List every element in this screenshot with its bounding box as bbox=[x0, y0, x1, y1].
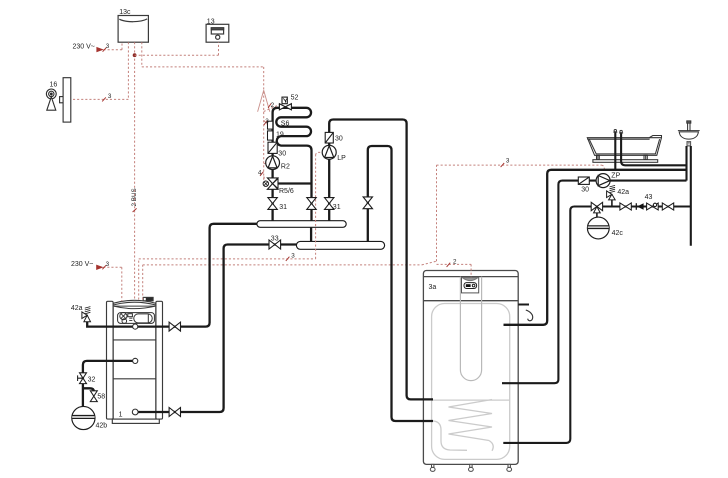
pipe: bathtub hot feed bbox=[614, 132, 616, 170]
tank control panel bbox=[462, 277, 479, 293]
svg-text:13c: 13c bbox=[119, 9, 131, 16]
svg-text:3: 3 bbox=[106, 261, 110, 268]
tank sensor squiggle bbox=[526, 310, 533, 321]
valve 33 bbox=[269, 240, 281, 249]
tank dip tube (gray) bbox=[460, 277, 481, 381]
sensor 19 bbox=[268, 131, 273, 140]
svg-text:2: 2 bbox=[271, 102, 275, 109]
svg-text:3: 3 bbox=[291, 252, 295, 259]
pipe: cold water feed to tank bbox=[503, 207, 691, 443]
pipe: heat pump flow to upper header bbox=[87, 224, 257, 327]
wire 230V supply to 13c (top) bbox=[104, 42, 123, 50]
wire 13c to receiver 16 bbox=[71, 42, 128, 99]
svg-text:3: 3 bbox=[108, 93, 112, 100]
svg-text:230 V~: 230 V~ bbox=[73, 44, 95, 51]
DHW tank 3a body bbox=[423, 271, 518, 465]
pipe: bridge between headers bbox=[310, 227, 312, 241]
radio clock receiver 16 bbox=[46, 78, 70, 122]
svg-text:43: 43 bbox=[645, 194, 653, 201]
svg-text:R5/6: R5/6 bbox=[279, 188, 294, 195]
sensor pocket (plain) bbox=[268, 121, 273, 129]
shutoff valve (cold line 1) bbox=[620, 203, 631, 210]
pipe: hot riser at basin bbox=[685, 146, 687, 181]
shutoff valve (tank coil return) bbox=[363, 197, 372, 209]
control unit 13c bbox=[118, 16, 148, 43]
arrowhead on mixing circuit cable bbox=[258, 90, 270, 112]
pipe: bathtub cold feed bbox=[621, 133, 686, 165]
mixing valve R5/6 bbox=[267, 178, 278, 189]
shutoff valve 31 (mixing circuit) bbox=[268, 198, 277, 210]
wire 13c BUS to heat pump bbox=[134, 42, 136, 300]
wire branch to sensors 19 bbox=[264, 120, 268, 124]
svg-text:1: 1 bbox=[119, 411, 123, 418]
wire branch to valve 52 motor bbox=[264, 104, 281, 111]
wire 230V supply to heat pump (lower) bbox=[103, 267, 122, 301]
svg-text:52: 52 bbox=[291, 94, 299, 101]
safety valve 42a (cold line) bbox=[607, 185, 616, 206]
svg-text:3: 3 bbox=[265, 118, 269, 125]
wire heat pump to tank sensor and pump ZP bbox=[143, 165, 605, 300]
pipe: cold water riser bbox=[690, 146, 692, 246]
pipe: mixer R5/6 bypass bbox=[278, 182, 312, 184]
arrow 230V lower bbox=[96, 265, 103, 270]
heat pump control panel bbox=[118, 313, 155, 324]
svg-text:58: 58 bbox=[97, 394, 105, 401]
pipe: tank coil return to lower header bbox=[368, 146, 433, 421]
pump R2 bbox=[266, 156, 280, 170]
heat pump return shutoff valve bbox=[169, 408, 180, 417]
safety valve 42a (heat pump) bbox=[82, 307, 91, 322]
tank sensor-well stub bbox=[518, 304, 529, 306]
svg-text:30: 30 bbox=[581, 187, 589, 194]
bathtub tap fittings bbox=[613, 130, 623, 134]
svg-text:2 BUS: 2 BUS bbox=[131, 188, 138, 206]
svg-text:ZP: ZP bbox=[611, 172, 620, 179]
wire to tank control 2 bbox=[437, 264, 472, 277]
pipe: heat pump to expansion vessel 42b bbox=[83, 361, 135, 407]
svg-text:4: 4 bbox=[258, 169, 262, 176]
labels (black) bbox=[50, 9, 653, 429]
heat pump cabinet bbox=[107, 297, 163, 423]
svg-text:S6: S6 bbox=[281, 121, 290, 128]
shutoff valve 31 (LP line) bbox=[325, 198, 334, 210]
shutoff valve (serpentine return) bbox=[307, 198, 316, 210]
pipe: heating circuit serpentine S6 bbox=[273, 108, 312, 221]
washbasin bbox=[678, 121, 700, 146]
svg-text:3: 3 bbox=[506, 158, 510, 165]
svg-text:31: 31 bbox=[333, 204, 341, 211]
expansion vessel 42c bbox=[587, 217, 609, 239]
tank inner vessel (gray) bbox=[432, 304, 510, 460]
check valve (cold line) bbox=[636, 203, 643, 210]
pump LP bbox=[322, 145, 336, 159]
lower header bbox=[296, 241, 384, 249]
svg-text:13: 13 bbox=[207, 19, 215, 26]
svg-text:230 V~: 230 V~ bbox=[71, 261, 93, 268]
three-way valve with expansion vessel branch bbox=[591, 202, 602, 217]
svg-text:32: 32 bbox=[88, 376, 96, 383]
shutoff valve with port (cold line 2) bbox=[647, 203, 659, 210]
expansion vessel 42b bbox=[72, 406, 95, 429]
sensor 30 (circulation) bbox=[578, 177, 589, 184]
svg-text:31: 31 bbox=[279, 204, 287, 211]
svg-text:42b: 42b bbox=[96, 423, 108, 430]
slash marks on cables bbox=[102, 48, 504, 270]
circulation pump ZP bbox=[596, 174, 610, 188]
svg-text:3a: 3a bbox=[429, 284, 437, 291]
junction dot bbox=[133, 53, 137, 57]
sensor 30 (mixing circuit) bbox=[268, 142, 277, 153]
svg-text:16: 16 bbox=[50, 81, 58, 88]
pipe: pump LP line and tank coil flow bbox=[329, 120, 433, 400]
svg-text:3: 3 bbox=[106, 43, 110, 50]
heat pump port top bbox=[133, 324, 138, 329]
drain valve 58 bbox=[90, 391, 97, 402]
svg-text:42a: 42a bbox=[617, 189, 629, 196]
pipe: DHW circulation with pump ZP bbox=[502, 181, 687, 384]
svg-text:R2: R2 bbox=[281, 163, 290, 170]
wire branch to pump R2 bbox=[264, 163, 266, 165]
svg-text:30: 30 bbox=[335, 136, 343, 143]
heat pump flow shutoff valve bbox=[169, 322, 180, 331]
heat pump port bottom 1 bbox=[132, 409, 138, 415]
svg-text:30: 30 bbox=[278, 150, 286, 157]
wire 13c to remote 13 bbox=[135, 42, 219, 55]
shutoff valve 43 (cold line 3) bbox=[662, 203, 673, 210]
svg-text:33: 33 bbox=[271, 235, 279, 242]
svg-text:2: 2 bbox=[453, 259, 457, 266]
remote control 13 bbox=[206, 24, 229, 42]
wire branch to mixer motor R5/6 bbox=[264, 177, 266, 181]
tank feet bbox=[430, 464, 511, 471]
svg-text:19: 19 bbox=[276, 131, 284, 138]
three-way valve 32 bbox=[78, 373, 87, 384]
pipe: hot water from tank to taps bbox=[504, 170, 687, 325]
svg-text:LP: LP bbox=[337, 155, 346, 162]
wire 13c to mixing circuit devices bbox=[142, 42, 264, 180]
sensor 30 (LP line) bbox=[325, 132, 333, 143]
labels (red wire numbers) bbox=[106, 43, 510, 268]
heat pump port middle bbox=[133, 358, 138, 363]
bathtub bbox=[587, 136, 661, 163]
motorised valve 52 bbox=[279, 97, 291, 110]
svg-text:42c: 42c bbox=[612, 230, 624, 237]
mixer motor bbox=[263, 181, 268, 186]
upper header (low-loss header) bbox=[257, 221, 346, 228]
pipe: drain branch to valve 58 bbox=[83, 388, 94, 392]
arrow 230V top bbox=[96, 47, 103, 52]
svg-text:42a: 42a bbox=[71, 305, 83, 312]
pipe: heat pump return from lower header via valve 33 bbox=[135, 245, 296, 413]
wire heat pump to pump LP bbox=[139, 152, 322, 299]
